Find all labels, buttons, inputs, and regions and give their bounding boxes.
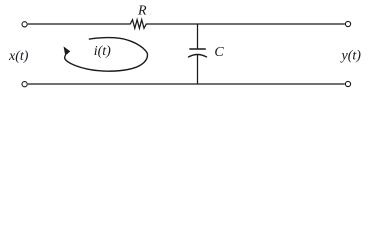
svg-text:i(t): i(t)	[94, 44, 111, 59]
current loop arc i(t)	[65, 38, 148, 72]
capacitor C plate top	[189, 48, 206, 50]
wire top left	[28, 23, 129, 25]
svg-text:x(t): x(t)	[8, 49, 29, 64]
terminal right top	[345, 21, 350, 26]
terminal left bottom	[22, 82, 27, 87]
terminal left top	[22, 22, 27, 27]
svg-text:R: R	[137, 3, 147, 18]
current loop arrowhead	[64, 46, 71, 55]
wire bottom	[28, 83, 345, 85]
capacitor C plate bottom curved	[188, 55, 207, 58]
resistor R	[129, 20, 148, 29]
svg-text:y(t): y(t)	[340, 49, 362, 64]
svg-text:C: C	[214, 45, 224, 60]
wire top right	[148, 23, 345, 25]
capacitor C lead top	[197, 24, 199, 49]
capacitor C lead bottom	[197, 55, 199, 84]
terminal right bottom	[345, 81, 350, 86]
